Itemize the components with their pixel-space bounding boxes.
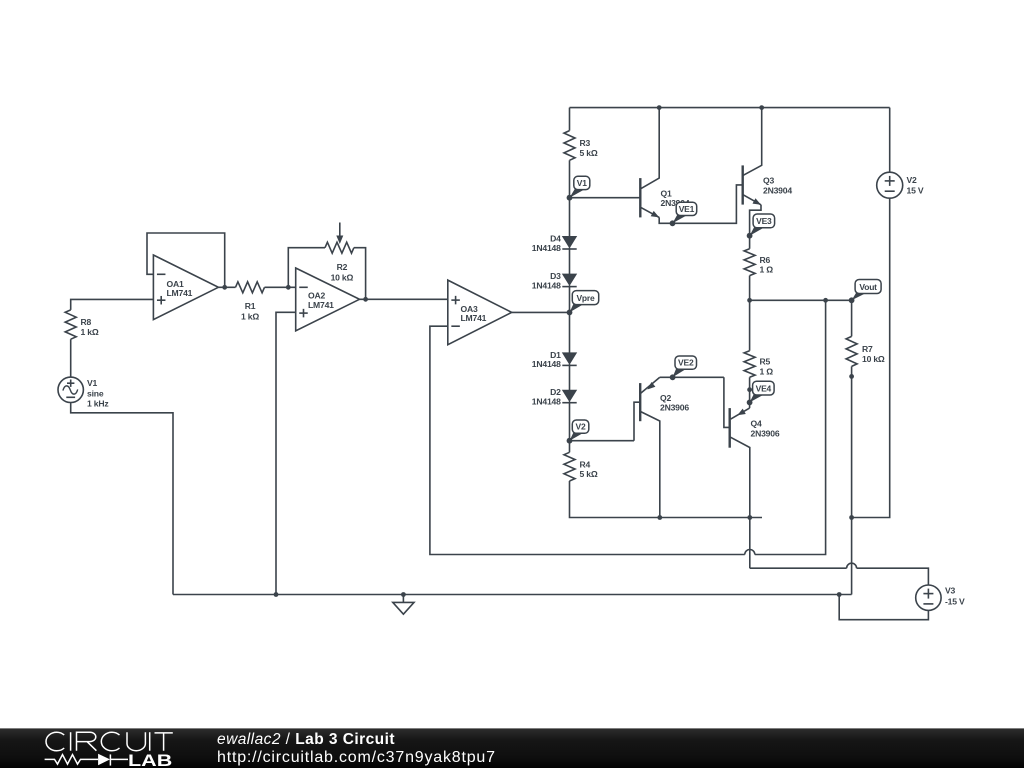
svg-text:LM741: LM741 [167,288,193,298]
svg-text:V1: V1 [87,378,98,388]
wire R4 to bottom rail [570,481,763,518]
transistor Q1 [640,108,690,218]
svg-text:15 V: 15 V [907,185,924,195]
wire R1 to OA2 inverting input [265,286,296,288]
node Vpre flag [567,291,599,316]
node VE2 flag [670,356,697,380]
wire Q2 emitter to Q4 base (VE2 net) [660,376,724,378]
svg-text:V2: V2 [576,422,586,432]
node Vout flag [849,280,881,304]
svg-text:1N4148: 1N4148 [532,280,561,290]
node junction feedback on Vout wire [823,298,828,303]
wire R3 to node V1 [569,160,571,236]
wire Vout horizontal [750,299,852,301]
node VE4 flag [747,381,774,405]
wire D4 to D3 [569,248,571,274]
wire D2 to node V2 and R4 [569,401,571,452]
node V2 flag [567,420,589,444]
voltage source V2 [877,172,924,198]
CircuitLab logo [45,732,173,765]
wire R8 to V1 [70,339,72,377]
transistor Q2 [634,377,689,517]
node junction R6/R5 on Vout wire [747,298,752,303]
diode D3 [532,271,577,290]
ground symbol [393,592,414,614]
svg-text:1 Ω: 1 Ω [760,366,774,376]
svg-text:LM741: LM741 [308,300,334,310]
diode D1 [532,350,577,369]
svg-text:R7: R7 [862,344,873,354]
node junction Q4 collector on bottom rail [747,515,752,520]
svg-text:5 kΩ: 5 kΩ [580,469,598,479]
svg-text:1 kHz: 1 kHz [87,399,108,409]
svg-text:R3: R3 [580,138,591,148]
node junction V3 branch on ground rail [837,592,842,597]
svg-text:V3: V3 [945,585,956,595]
svg-text:R8: R8 [81,317,92,327]
svg-text:Vpre: Vpre [576,293,595,303]
svg-text:1 kΩ: 1 kΩ [81,327,99,337]
wire V3 minus to ground rail [839,595,928,620]
wire node V2 to Q2 base [570,440,635,442]
op-amp OA1 [153,255,218,320]
node junction Q2 collector on bottom rail [657,515,662,520]
svg-text:VE4: VE4 [756,383,772,393]
wire OA1 output to R1 [218,286,235,288]
wire OA2 feedback to R2 [288,248,325,288]
svg-text:Vout: Vout [859,282,877,292]
node V1 flag [567,176,590,200]
node junction OA2 inverting input [286,285,291,290]
node junction OA1 output [222,285,227,290]
svg-text:Q4: Q4 [751,419,762,429]
node junction Q3 collector on rail [759,105,764,110]
svg-text:2N3906: 2N3906 [751,428,780,438]
svg-text:5 kΩ: 5 kΩ [580,148,598,158]
wire OA3 inverting input feedback from Vout [430,300,826,554]
svg-text:10 kΩ: 10 kΩ [862,354,885,364]
op-amp OA3 [448,280,512,345]
svg-text:1N4148: 1N4148 [532,397,561,407]
wire OA2 non-inverting input to ground rail [276,312,296,594]
resistor R7 branch from Vout [846,300,885,366]
svg-text:2N3906: 2N3906 [660,402,689,412]
svg-text:V2: V2 [907,175,918,185]
op-amp OA2 [296,268,360,331]
resistor R4 [564,452,598,481]
svg-text:http://circuitlab.com/c37n9yak: http://circuitlab.com/c37n9yak8tpu7 [217,749,496,766]
wire OA3 output to Vpre node [512,311,570,313]
node junction below R5 [747,387,752,392]
wire OA1 feedback loop [147,233,225,287]
resistor R2 (potentiometer) [325,223,354,283]
svg-text:1N4148: 1N4148 [532,243,561,253]
svg-text:2N3904: 2N3904 [763,185,792,195]
wire OA1 non-inverting input to R8 [71,299,154,310]
footer title text [217,731,496,766]
node junction below R7 [849,374,854,379]
svg-text:1 Ω: 1 Ω [760,265,774,275]
wire R7 to ground rail [851,366,853,594]
wire top supply rail [570,107,890,109]
resistor R6 [744,249,773,276]
wire D3 to Vpre node [569,285,571,353]
diode D2 [532,387,577,406]
svg-text:R1: R1 [245,301,256,311]
resistor R3 [564,131,598,161]
svg-text:VE2: VE2 [678,358,694,368]
transistor Q4 [724,377,780,568]
wire R6 to Vout rail [749,276,751,301]
node VE3 flag [747,214,775,239]
svg-text:1 kΩ: 1 kΩ [241,312,259,322]
wire OA2 output to OA3 non-inverting input [360,298,448,300]
svg-text:-15 V: -15 V [945,597,965,607]
wire V2 branch [852,108,890,518]
svg-text:R5: R5 [760,357,771,367]
svg-text:R4: R4 [580,459,591,469]
wire D1 to D2 [569,364,571,390]
resistor R8 [65,310,99,339]
voltage source V1 (sine) [58,377,108,409]
node junction Q1 collector on rail [657,105,662,110]
svg-text:Q3: Q3 [763,175,774,185]
svg-text:V1: V1 [577,178,587,188]
node VE1 flag [670,202,697,226]
svg-text:R2: R2 [337,262,348,272]
resistor R1 [236,282,265,322]
svg-text:R6: R6 [760,255,771,265]
node junction V2 minus on R7 branch [849,515,854,520]
wire rail to R3 [569,108,571,131]
svg-text:ewallac2 / Lab 3 Circuit: ewallac2 / Lab 3 Circuit [217,731,395,748]
svg-text:LM741: LM741 [461,313,487,323]
svg-text:sine: sine [87,388,104,398]
svg-text:VE3: VE3 [756,216,772,226]
voltage source V3 [916,585,965,610]
svg-text:LAB: LAB [128,751,172,768]
node junction OA2 output [363,297,368,302]
svg-text:VE1: VE1 [679,204,695,214]
svg-text:1N4148: 1N4148 [532,359,561,369]
wire node V1 to Q1 base [570,197,641,199]
resistor R5 [744,300,773,377]
wire R2 to OA2 output [354,248,366,300]
node junction OA2 plus branch on ground rail [274,592,279,597]
wire Q4 collector to V3 plus [750,563,929,585]
wire Q1 emitter to Q3 base [659,185,743,223]
wire V1 bottom to ground rail [71,403,173,595]
wire R5 to Q4 emitter [749,377,751,408]
svg-text:10 kΩ: 10 kΩ [331,272,354,282]
wire ground rail [173,594,852,596]
diode D4 [532,234,577,253]
transistor Q3 [743,108,793,205]
wire Q3 emitter to R6 [750,205,761,249]
